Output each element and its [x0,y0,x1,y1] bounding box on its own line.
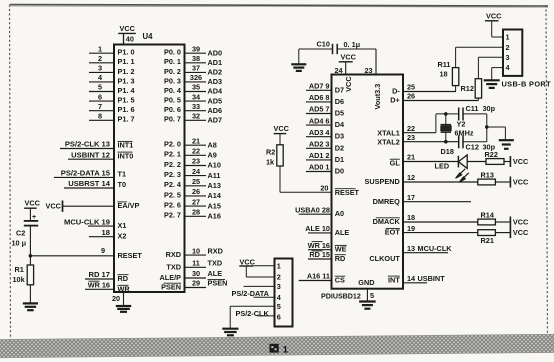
svg-text:PS/2-DATA 15: PS/2-DATA 15 [61,169,111,178]
svg-text:INT0: INT0 [118,151,134,160]
svg-text:VCC: VCC [513,178,529,187]
svg-text:RD 17: RD 17 [88,270,110,279]
svg-text:P1. 0: P1. 0 [118,48,135,57]
PDIUSBD12 pin 22 (XTAL1) [377,124,436,138]
left border dotted line [10,5,11,341]
U4 pin 11 (TXD) wire / net TXD [166,259,222,272]
svg-text:C2: C2 [16,229,25,238]
svg-text:AD1: AD1 [208,58,223,67]
PDIUSBD12 pin 23 (XTAL2) [377,133,458,147]
svg-text:21: 21 [192,136,200,145]
IC U4 (MCU) body [114,45,185,293]
U4 pin 17 RD [85,270,129,283]
VCC flag after R13 [509,177,511,188]
svg-text:P0. 1: P0. 1 [164,57,181,66]
svg-text:P2. 6: P2. 6 [164,201,181,210]
svg-text:6: 6 [98,92,102,101]
wire C10 left to ground [299,49,333,64]
capacitor C11 30p [459,104,496,121]
svg-text:USB-B PORT: USB-B PORT [502,80,552,89]
svg-text:1: 1 [277,261,281,270]
svg-text:VCC: VCC [344,76,353,92]
svg-text:AD5 7: AD5 7 [309,105,330,114]
svg-text:A8: A8 [208,140,217,149]
svg-text:T0: T0 [118,180,127,189]
U4 EA/VP pin wire [63,201,140,210]
svg-text:AD2 3: AD2 3 [309,140,330,149]
svg-text:AD3: AD3 [208,77,223,86]
svg-text:SUSPEND: SUSPEND [365,177,400,186]
ground symbol below PDIUSBD12 [359,300,376,302]
svg-text:LED: LED [435,162,450,171]
svg-text:24: 24 [335,66,344,75]
svg-text:8: 8 [98,112,102,121]
U4 pin 25 (P2.4) wire / net A13 [164,177,221,190]
U4 pin 5 (P1.4) wire and number [89,83,135,95]
svg-text:26: 26 [407,92,415,101]
capacitor C10 0.1u [317,40,361,55]
svg-text:WE: WE [335,245,347,254]
svg-text:Vout3.3: Vout3.3 [373,84,382,110]
svg-text:P1. 2: P1. 2 [118,67,135,76]
svg-text:35: 35 [192,83,200,92]
U4 pin 3 (P1.2) wire and number [89,64,135,76]
svg-text:A0: A0 [335,209,344,218]
U4 pin 32 (P0.7) wire / net AD7 [164,112,222,125]
capacitor C12 30p [459,135,496,151]
svg-text:9: 9 [101,246,105,255]
svg-text:23: 23 [192,157,200,166]
U4 pin 39 (P0.0) wire / net AD0 [164,44,222,57]
PDIUSBD12 pin 12 (SUSPEND) [365,173,478,186]
svg-text:WR 16: WR 16 [88,281,110,290]
PDIUSBD12 pin 21 (GL) to LED [390,153,459,168]
svg-text:27: 27 [192,197,200,206]
svg-text:INT1: INT1 [118,141,134,150]
svg-text:AD0: AD0 [208,48,223,57]
svg-text:6MHz: 6MHz [455,129,474,138]
U4 pin 35 (P0.4) wire / net AD4 [164,83,223,96]
resistor R1 10k [13,265,34,285]
wire USB-B pin4 to ground [492,68,503,80]
svg-text:D5: D5 [335,109,344,118]
svg-text:R14: R14 [481,210,495,219]
svg-text:VCC: VCC [274,124,290,133]
svg-text:25: 25 [407,83,415,92]
svg-text:18: 18 [407,213,415,222]
svg-text:X1: X1 [118,221,127,230]
svg-text:22: 22 [192,147,200,156]
svg-text:USBRST 14: USBRST 14 [68,179,111,188]
svg-text:P2. 0: P2. 0 [164,140,181,149]
svg-text:A11: A11 [208,171,221,180]
svg-text:24: 24 [192,167,201,176]
PDIUSBD12 pin 18 (DMACK) [373,213,478,226]
svg-text:XTAL2: XTAL2 [377,138,400,147]
svg-text:11: 11 [192,259,200,268]
right border dotted line [546,5,548,340]
PDIUSBD12 pin 4 (D3) wire / net AD3 [306,128,344,141]
PDIUSBD12 pin 23 wire (Vout3.3) [375,49,377,75]
bottom grey halftone band [0,334,554,358]
svg-text:XTAL1: XTAL1 [377,129,400,138]
PDIUSBD12 pin 28 (A0) / net USBA0 [295,205,344,218]
svg-text:PSEN: PSEN [208,279,228,288]
wire C10 right to pin 23 [337,48,376,50]
svg-text:A14: A14 [208,191,222,200]
wire USB-B pin2 to R11 [456,47,503,67]
PDIUSBD12 pin 26 (D+) [390,92,478,105]
svg-text:R21: R21 [481,236,494,245]
svg-text:EOT: EOT [385,228,401,237]
IC PDIUSBD12 body [332,75,404,289]
svg-text:D1: D1 [335,155,344,164]
svg-text:RD: RD [118,274,129,283]
junction crystal bottom [444,140,448,144]
svg-text:AD4: AD4 [208,87,224,96]
VCC flag after R21 [509,227,511,238]
svg-text:ALE: ALE [335,228,350,237]
svg-text:GND: GND [358,278,374,287]
svg-text:1: 1 [283,345,289,356]
svg-text:12: 12 [407,173,415,182]
U4 pin 20 GND wire [123,292,125,306]
U4 pin 30 (ALE/P) wire / net ALE [160,269,223,282]
U4 pin 13 INT1 / net PS/2-CLK [60,140,133,150]
svg-text:ALE: ALE [208,269,223,278]
wire PS/2 pin2 to VCC [246,266,274,277]
U4 pin 22 (P2.1) wire / net A9 [164,147,217,160]
svg-text:A9: A9 [208,151,217,160]
U4 pin 2 (P1.1) wire and number [89,54,135,66]
svg-text:10k: 10k [13,275,26,284]
svg-text:PDIUSBD12: PDIUSBD12 [321,293,361,301]
svg-text:1: 1 [98,44,102,53]
svg-text:25: 25 [192,177,200,186]
svg-text:1: 1 [506,33,510,42]
svg-text:RXD: RXD [208,246,223,255]
svg-text:33: 33 [192,102,200,111]
svg-text:2: 2 [98,54,102,63]
svg-text:10: 10 [192,246,200,255]
U4 pin 16 WR [85,281,130,294]
svg-text:13: 13 [407,244,415,253]
svg-text:3: 3 [277,282,281,291]
svg-text:INT: INT [388,275,400,284]
svg-text:34: 34 [192,92,201,101]
U4 pin 38 (P0.1) wire / net AD1 [164,54,222,67]
resistor R2 1k pull-up [266,124,290,166]
ground symbol for crystal caps [499,139,514,141]
svg-text:14: 14 [407,274,416,283]
svg-text:D0: D0 [335,167,344,176]
svg-text:P1. 1: P1. 1 [118,57,135,66]
svg-text:USBINT: USBINT [418,274,446,283]
wire PS/2 pin1 to VCC [253,265,274,267]
junction right rail [485,125,489,129]
svg-text:37: 37 [192,64,200,73]
svg-text:39: 39 [192,44,200,53]
wire PS/2 pin3 / net PS/2-DATA [232,286,275,298]
svg-text:R2: R2 [266,148,275,157]
svg-text:20: 20 [112,294,120,303]
svg-text:6: 6 [277,313,281,322]
svg-text:RXD: RXD [166,250,181,259]
svg-text:CLKOUT: CLKOUT [369,254,400,263]
U4 pin 37 (P0.2) wire / net AD2 [164,64,222,77]
wire USB-B pin1 to VCC [492,21,503,37]
svg-text:DMREQ: DMREQ [373,197,400,206]
svg-text:P1. 6: P1. 6 [118,105,135,114]
svg-text:5: 5 [98,83,102,92]
svg-text:21: 21 [407,153,415,162]
U4 pin 19 X1 / net MCU-CLK [64,217,126,230]
inside label RESET [335,188,360,197]
svg-text:P0. 7: P0. 7 [164,115,181,124]
U4 pin 40 wire [123,33,125,44]
svg-text:P1. 3: P1. 3 [118,76,135,85]
svg-text:P0. 3: P0. 3 [164,76,181,85]
svg-text:PSEN: PSEN [161,283,181,292]
svg-text:DMACK: DMACK [373,217,401,226]
svg-text:5: 5 [370,291,374,300]
svg-text:VCC: VCC [341,53,357,62]
capacitor C2 (electrolytic 10u) [12,214,39,248]
PDIUSBD12 pin 5 GND wire [366,289,368,302]
PDIUSBD12 pin 13 (CLKOUT) / net MCU-CLK [369,244,452,263]
wire PS/2 pin6 [258,315,275,317]
svg-text:AD3 4: AD3 4 [309,128,331,137]
svg-text:D7: D7 [335,85,344,94]
svg-text:Y2: Y2 [457,120,466,129]
PDIUSBD12 pin 25 (D-) [392,83,456,96]
svg-text:AD6 8: AD6 8 [309,93,330,102]
ground symbol left of C10 [291,63,306,65]
svg-text:1k: 1k [266,157,275,166]
svg-text:AD6: AD6 [208,106,223,115]
PDIUSBD12 pin 16 (WE) / net WR [308,241,347,254]
svg-text:D+: D+ [390,96,400,105]
svg-text:30p: 30p [483,104,496,113]
U4 pin 4 (P1.3) wire and number [89,73,135,85]
U4 pin 33 (P0.6) wire / net AD6 [164,102,222,115]
svg-text:MCU-CLK: MCU-CLK [418,244,453,253]
wire R22 to VCC [504,161,510,163]
svg-text:5: 5 [277,302,281,311]
svg-text:P0. 6: P0. 6 [164,105,181,114]
U4 pin 34 (P0.5) wire / net AD5 [164,92,222,105]
svg-text:VCC: VCC [120,24,136,33]
svg-text:CS: CS [335,276,345,285]
svg-text:R12: R12 [461,84,474,93]
wire R14 to VCC [495,221,510,223]
svg-text:VCC: VCC [25,199,41,208]
svg-text:3: 3 [98,64,102,73]
PDIUSBD12 pin 2 (D1) wire / net AD1 [306,151,344,164]
svg-text:AD7: AD7 [208,116,223,125]
svg-text:D4: D4 [335,120,345,129]
svg-text:GL: GL [390,159,401,168]
svg-text:AD7 9: AD7 9 [309,82,330,91]
junction crystal top [444,112,448,116]
svg-text:A16 11: A16 11 [307,272,330,281]
wire LED to R22 [468,161,486,163]
U4 pin 18 X2 [89,228,126,241]
U4 pin 28 (P2.7) wire / net A16 [164,208,221,221]
ground symbol at USB-B pin4 [484,79,500,81]
figure caption 1 [270,344,289,356]
wire PS/2 pin4 [254,296,275,298]
svg-text:AD2: AD2 [208,68,223,77]
wire USB-B pin3 to R12 [478,57,503,78]
PDIUSBD12 pin 17 (DMREQ) [373,193,471,206]
PDIUSBD12 pin 3 (D2) wire / net AD2 [306,140,344,153]
PDIUSBD12 pin 15 (RD) / net RD [308,250,346,263]
resistor R14 on DMACK [478,210,496,225]
svg-text:2: 2 [506,43,510,52]
svg-text:17: 17 [407,193,415,202]
svg-text:MCU-CLK 19: MCU-CLK 19 [64,217,110,226]
svg-text:P1. 7: P1. 7 [118,115,135,124]
U4 pin 14 T0 / net USBRST [64,179,126,189]
VCC flag after R22 [509,156,511,167]
wire R13 to VCC [495,181,510,183]
svg-text:RD: RD [335,254,346,263]
svg-text:40: 40 [126,34,134,43]
svg-text:3: 3 [506,53,510,62]
U4 pin 326 (P0.3) wire / net AD3 [164,73,222,86]
svg-text:RD 15: RD 15 [309,250,330,259]
svg-text:+: + [32,214,36,221]
svg-text:P0. 5: P0. 5 [164,96,181,105]
U4 pin 15 T1 / net PS/2-DATA [54,169,126,179]
svg-text:P1. 4: P1. 4 [118,86,136,95]
svg-text:P1. 5: P1. 5 [118,96,135,105]
U4 pin 27 (P2.6) wire / net A15 [164,197,221,210]
svg-text:WR 16: WR 16 [308,241,330,250]
svg-text:EA/VP: EA/VP [118,201,140,210]
wire R11 to D- line [455,86,457,92]
svg-text:ALE 10: ALE 10 [305,224,330,233]
svg-text:D-: D- [392,87,400,96]
svg-text:P2. 1: P2. 1 [164,150,181,159]
wire R1 to ground [29,285,31,303]
wire rail to crystal ground [487,127,506,139]
LED D18 [435,147,469,182]
svg-text:29: 29 [192,279,200,288]
U4 pin 1 (P1.0) wire and number [89,44,135,56]
svg-text:C12: C12 [466,143,479,152]
svg-text:P2. 3: P2. 3 [164,170,181,179]
svg-text:10 μ: 10 μ [12,239,27,248]
PDIUSBD12 pin 8 (D6) wire / net AD6 [306,93,344,106]
U4 pin 12 INT0 / net USBINT [68,150,133,160]
svg-text:PS/2-CLK 13: PS/2-CLK 13 [65,140,110,149]
svg-text:D2: D2 [335,143,344,152]
svg-text:P0. 0: P0. 0 [164,48,181,57]
ground symbol below U4 pin 20 [116,305,131,307]
svg-text:C10: C10 [317,40,330,49]
svg-text:38: 38 [192,54,200,63]
svg-text:18: 18 [102,228,110,237]
USB-B connector body [503,30,522,76]
U4 pin 6 (P1.5) wire and number [89,92,135,104]
svg-text:26: 26 [192,187,200,196]
svg-text:A15: A15 [208,201,221,210]
U4 pin 10 (RXD) wire / net RXD [166,246,223,259]
U4 pin 26 (P2.5) wire / net A14 [164,187,222,200]
PS/2 connector body [275,259,293,327]
svg-text:D6: D6 [335,97,344,106]
svg-text:U4: U4 [143,32,154,41]
resistor R21 on EOT [478,230,496,246]
svg-text:P2. 7: P2. 7 [164,211,181,220]
svg-text:R13: R13 [481,170,494,179]
svg-text:VCC: VCC [486,12,502,21]
svg-text:AD5: AD5 [208,96,223,105]
svg-text:7: 7 [98,102,102,111]
PDIUSBD12 pin 1 (D0) wire / net AD0 [306,163,344,176]
svg-text:R11: R11 [438,60,451,69]
svg-text:USBA0 28: USBA0 28 [295,205,330,214]
svg-text:RESET: RESET [118,251,143,260]
svg-text:VCC: VCC [513,218,529,227]
svg-text:23: 23 [365,66,373,75]
svg-text:P2. 4: P2. 4 [164,180,182,189]
svg-text:P2. 2: P2. 2 [164,160,181,169]
U4 pin 8 (P1.7) wire and number [89,112,135,124]
svg-text:D3: D3 [335,132,344,141]
wire R2 to PDIUSBD12 RESET pin 20 [280,166,332,193]
wire C2 to RESET node [29,226,31,265]
PDIUSBD12 pin 7 (D5) wire / net AD5 [306,105,344,118]
svg-text:32: 32 [192,112,200,121]
wire PS/2 pin5 to ground / net PS/2-CLK [230,306,274,328]
svg-text:20: 20 [320,184,328,193]
U4 pin 21 (P2.0) wire / net A8 [164,136,217,149]
PDIUSBD12 pin 6 (D4) wire / net AD4 [306,116,345,129]
PDIUSBD12 pin 19 (EOT) [385,224,478,237]
PDIUSBD12 pin 24 wire [345,62,347,75]
svg-text:R1: R1 [15,265,24,274]
svg-text:R22: R22 [485,150,498,159]
top border line of figure frame [10,5,548,7]
junction node RESET [29,254,33,258]
ground symbol below R1 [23,302,38,304]
svg-text:VCC: VCC [46,202,62,211]
svg-text:VCC: VCC [240,257,256,266]
svg-text:AD1 2: AD1 2 [309,151,330,160]
resistor R11 18 [438,60,459,86]
VCC flag after R14 [509,217,511,228]
PDIUSBD12 pin 10 (ALE) / net ALE [305,224,349,237]
svg-text:ALE/P: ALE/P [160,273,182,282]
svg-text:AD0 1: AD0 1 [309,163,330,172]
svg-text:P0. 4: P0. 4 [164,86,182,95]
svg-text:18: 18 [440,70,448,79]
svg-text:RESET: RESET [335,188,360,197]
resistor R13 on SUSPEND [478,170,496,185]
resistor R22 [485,150,505,164]
svg-text:326: 326 [190,73,202,82]
U4 pin 7 (P1.6) wire and number [89,102,135,114]
U4 pin 29 (PSEN) wire / net PSEN [161,279,227,292]
svg-text:2: 2 [277,273,281,282]
svg-text:USBINT 12: USBINT 12 [71,150,110,159]
svg-text:TXD: TXD [208,259,223,268]
right rail joining C11 and C12 [486,114,488,142]
svg-text:A10: A10 [208,161,221,170]
